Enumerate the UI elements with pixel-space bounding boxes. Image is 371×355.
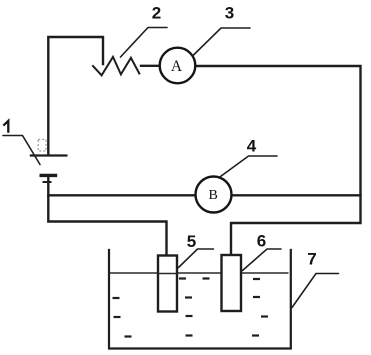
svg-text:4: 4 xyxy=(247,137,257,156)
svg-text:2: 2 xyxy=(152,4,161,23)
svg-text:B: B xyxy=(209,188,218,203)
svg-text:A: A xyxy=(171,58,183,75)
svg-text:7: 7 xyxy=(307,250,316,269)
svg-text:5: 5 xyxy=(187,232,196,251)
svg-text:6: 6 xyxy=(257,232,266,251)
svg-text:3: 3 xyxy=(225,4,234,23)
